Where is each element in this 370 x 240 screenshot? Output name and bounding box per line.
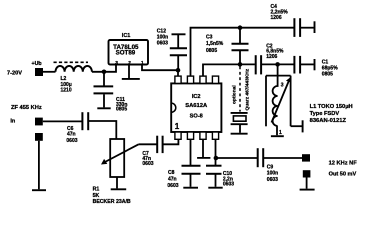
ground C11 (97, 107, 110, 109)
junction node L1 top (275, 62, 280, 67)
ground C8 (183, 187, 198, 189)
wire IC1 pin 2 to ground (128, 65, 130, 79)
ground crystal (231, 133, 248, 135)
svg-text:In: In (10, 118, 16, 124)
wire shield to ground (38, 141, 40, 190)
svg-text:7-20V: 7-20V (7, 71, 22, 77)
wire tank node to C1 (278, 63, 294, 65)
ground output (300, 189, 315, 191)
wire dashed to optional crystal (239, 67, 241, 112)
wire out shield to ground (306, 178, 308, 189)
capacitor C9 (258, 148, 279, 183)
svg-text:100n: 100n (267, 171, 278, 177)
svg-text:0805: 0805 (322, 71, 333, 77)
svg-text:0603: 0603 (267, 177, 278, 183)
ground C10 (208, 187, 222, 189)
ground IC1 (122, 78, 140, 80)
wire IC1 pin 1 to +5V node (142, 65, 178, 71)
svg-text:+Ub: +Ub (32, 61, 43, 67)
svg-text:BECKER 23A/B: BECKER 23A/B (93, 199, 131, 205)
inductor L1 TOKO (266, 64, 353, 136)
wire IC2 pin 2 to C8 (190, 139, 192, 165)
pin 6 IC2 (200, 76, 206, 83)
svg-text:Type FSDV: Type FSDV (310, 111, 340, 117)
wire in to C6 (43, 120, 82, 122)
capacitor C8 (167, 166, 200, 189)
svg-text:C8: C8 (168, 170, 175, 176)
svg-text:0603: 0603 (66, 138, 77, 144)
svg-text:0603: 0603 (157, 40, 168, 46)
svg-text:R1: R1 (93, 186, 100, 192)
junction node C3 top (238, 25, 243, 30)
svg-text:optional: optional (231, 85, 237, 104)
wire R1 wiper to C7 (139, 143, 157, 145)
wire IC2 pin 4 to C10 (215, 139, 217, 165)
svg-text:47n: 47n (168, 176, 177, 182)
svg-text:C3: C3 (206, 35, 213, 41)
svg-text:0603: 0603 (167, 183, 178, 189)
pin 1 IC2 (175, 132, 181, 139)
junction node Vin / C11 (102, 70, 107, 75)
crystal Q1 467/443KHz (231, 68, 251, 132)
potentiometer R1 (93, 139, 139, 205)
ground input (32, 189, 46, 191)
terminal ZF in shield (35, 133, 43, 141)
svg-text:C9: C9 (267, 164, 274, 170)
capacitor C3 (206, 28, 249, 65)
pin 5 IC2 (212, 76, 218, 83)
capacitor C11 (94, 72, 128, 113)
svg-text:L1 TOKO 150µH: L1 TOKO 150µH (310, 104, 353, 110)
wire output node to C9 (216, 157, 257, 159)
svg-text:SA612A: SA612A (185, 103, 208, 109)
junction node output (214, 156, 219, 161)
wire L2 to IC1 pin 3 (92, 65, 116, 72)
svg-text:0805: 0805 (116, 107, 127, 113)
svg-text:1: 1 (279, 130, 282, 136)
pin 3 IC2 (200, 132, 206, 139)
svg-text:1,5n5%: 1,5n5% (206, 41, 224, 47)
svg-text:ZF 455 KHz: ZF 455 KHz (11, 105, 42, 111)
wire C7 to IC2 pin 1 (163, 139, 179, 144)
inductor L2 (54, 62, 92, 93)
capacitor C7 (142, 136, 162, 167)
capacitor C1 (294, 56, 338, 77)
svg-text:Out 50 mV: Out 50 mV (329, 172, 357, 178)
capacitor C10 (206, 166, 234, 188)
capacitor C12 (157, 29, 187, 71)
wire +5V node to IC2 pin 8 (177, 70, 179, 76)
terminal out (302, 154, 310, 161)
terminal ZF in (35, 118, 43, 126)
pin 8 IC2 (175, 76, 181, 83)
svg-text:3: 3 (115, 60, 118, 66)
svg-text:SOT89: SOT89 (116, 49, 136, 56)
wire +Ub to L2 (43, 71, 56, 73)
svg-text:0603: 0603 (142, 161, 153, 167)
junction node tank / crystal (238, 62, 243, 67)
svg-text:1206: 1206 (271, 15, 282, 21)
svg-text:1206: 1206 (266, 54, 277, 60)
voltage regulator IC1 (109, 33, 149, 66)
ground R1 (111, 188, 127, 190)
wire C6 to R1 (88, 121, 116, 139)
svg-text:1: 1 (175, 122, 180, 131)
pin 2 IC2 (187, 132, 193, 139)
svg-text:12 KHz NF: 12 KHz NF (329, 160, 358, 166)
svg-text:SO-8: SO-8 (190, 114, 203, 120)
capacitor C4 (271, 4, 315, 37)
terminal out ground side (303, 170, 311, 177)
svg-text:0603: 0603 (223, 182, 234, 188)
capacitor C6 (66, 112, 88, 144)
svg-text:3: 3 (281, 83, 284, 89)
pin 7 IC2 (187, 76, 193, 83)
wire IC2 pin 7 to oscillator rail (191, 28, 294, 76)
svg-text:Quarz 467/443KHz: Quarz 467/443KHz (244, 68, 250, 110)
mixer IC2 SA612A (171, 76, 221, 139)
svg-text:IC2: IC2 (192, 94, 201, 100)
svg-text:47n: 47n (67, 132, 76, 138)
stub IC2 pin 3 (197, 139, 210, 158)
svg-text:IC1: IC1 (122, 33, 131, 39)
terminal +Ub input (35, 68, 43, 76)
junction node +5V (176, 68, 181, 73)
svg-text:1210: 1210 (61, 88, 72, 94)
ground L1 pin 1 (271, 135, 284, 137)
capacitor C2 (256, 43, 284, 74)
svg-text:836AN-0121Z: 836AN-0121Z (310, 118, 347, 124)
wire IC2 pin 6 to tank (203, 64, 255, 76)
notch IC2 (171, 103, 176, 112)
wire C9 to out terminal (263, 157, 302, 159)
svg-text:0805: 0805 (206, 48, 217, 54)
pin 4 IC2 (212, 132, 218, 139)
